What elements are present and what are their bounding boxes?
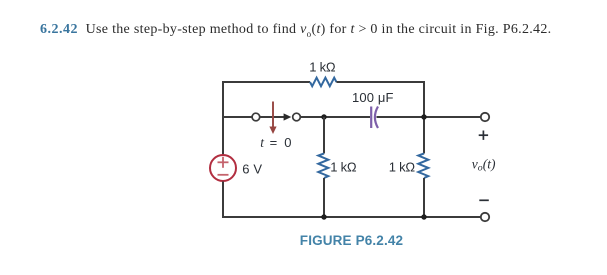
wire: right vertical upper segment [423,81,425,154]
svg-text:6V: 6V [242,161,262,176]
resistor R1 1 kOhm (top, horizontal) [310,78,336,87]
switch S1: right contact [293,113,301,121]
output terminal (-) open circle [481,213,489,221]
label 100 uF [352,90,394,105]
svg-text:vo(t): vo(t) [472,156,496,173]
wire: middle wire from switch to capacitor [301,116,370,118]
node D junction dot (bottom of R3) [421,214,426,219]
wire: switch blade with arrowhead [260,113,291,120]
label 1 kOhm (right resistor) [389,159,416,174]
capacitor C1 100 uF [371,107,378,129]
label - polarity [479,199,489,201]
svg-text:t=0: t=0 [260,135,291,150]
svg-text:100 μF: 100 μF [352,90,394,105]
output terminal (+) open circle [481,113,489,121]
node B junction dot (top of R3) [421,114,426,119]
label 1 kOhm (top) [309,60,336,75]
wire: left vertical upper segment [222,81,224,155]
wire: middle wire from capacitor to output [377,116,481,118]
node C junction dot (bottom of R2) [321,214,326,219]
wire: right vertical lower segment [423,178,425,218]
svg-text:1 kΩ: 1 kΩ [389,159,416,174]
problem statement text [40,22,551,39]
label 6 V [242,161,262,176]
figure caption [300,233,403,248]
voltage source V1 6V [210,155,236,181]
resistor R2 1 kOhm (middle, vertical) [318,117,328,217]
svg-text:1 kΩ: 1 kΩ [309,60,336,75]
wire: top wire right segment [336,81,424,83]
switch closing arrow (t=0 action) [269,102,276,135]
label t = 0 [260,135,291,150]
wire: left vertical lower segment [222,182,224,219]
wire: middle wire from source to switch [222,116,252,118]
node A junction dot (top of R2) [321,114,326,119]
label vo(t) output voltage [472,156,496,173]
label 1 kOhm (middle resistor) [330,159,357,174]
label + polarity [479,131,488,140]
svg-text:1 kΩ: 1 kΩ [330,159,357,174]
wire: bottom wire [222,216,481,218]
resistor R3 1 kOhm (right, vertical) [418,154,428,179]
switch S1 (closes at t=0): left contact [252,113,260,121]
wire: top wire left segment [223,81,310,83]
